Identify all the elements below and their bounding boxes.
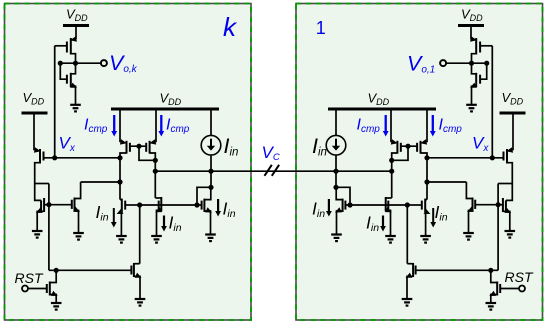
ground (M12) (cell k) [135,298,146,300]
node rst drain (cell 1) [488,268,493,273]
current arrow Iin M8 (k) [113,208,115,223]
vdd supply bar (latch) (cell 1) [328,108,436,111]
vdd supply bar (inverter) (cell 1) [458,24,484,27]
wire vdd stem 2 (cell k) [33,114,35,150]
current arrow Iin M10 (1) [328,199,330,212]
nmos M5 (mirror output) (cell 1) [466,182,475,233]
nmos M10 (Iin diode) (cell 1) [335,187,350,234]
vdd supply bar (left column) (cell 1) [500,112,526,115]
current arrow Icmp 2 (k) [160,115,162,132]
node rst drain (cell k) [54,268,59,273]
current arrow Icmp 2 (1) [385,115,387,132]
wire output node (cell 1) [446,62,487,64]
nmos M8 (Iin mirror to Vx) (cell k) [119,182,121,200]
nmos M2 (inverter pull-down) (cell k) [60,63,67,79]
ground (M5) (cell 1) [463,233,474,240]
nmos M5 (mirror output) (cell k) [71,200,73,209]
wire M4 gate feed (cell 1) [506,184,512,201]
terminal Vo circle (cell k) [101,60,107,66]
wire latch drain down (cell 1) [391,160,393,171]
current source Iin (cell k) [201,135,221,155]
vdd supply bar (inverter) (cell k) [63,24,89,27]
ground (M12) (cell 1) [402,299,413,306]
wire vdd stem 2 (cell 1) [512,114,514,150]
pmos M7 (latch right, diode) (cell k) [149,139,156,145]
pmos M1 (inverter pull-up) (cell k) [70,36,77,42]
nmos M11 (reset switch) (cell k) [46,284,48,293]
wire mirror gate bus (cell 1) [475,204,498,206]
svg-text:RST: RST [505,269,534,285]
node latch drain (cell 1) [389,158,394,163]
node Vx branch (cell 1) [424,179,429,184]
wire latch stem left (cell k) [119,110,121,142]
wire rst gate (cell 1) [500,288,519,290]
node row gate bus left (cell 1) [405,202,410,207]
wire gate bus tap down (cell 1) [497,205,499,271]
node Vx at latch drain (cell 1) [424,155,429,160]
ground (M4) (cell k) [32,230,43,232]
wire Vx branch (cell k) [119,158,121,182]
wire gates to drain (cell 1) [392,146,408,160]
wire diode link (cell 1) [336,187,350,205]
vdd supply bar (left column) (cell k) [22,112,48,115]
wire mirror gate bus (cell k) [49,204,72,206]
wire row gate bus (cell 1) [350,204,407,206]
node mirror gate (cell 1) [496,202,501,207]
pmos M6 (latch left) (cell k) [120,139,127,145]
node Vx branch (cell k) [117,179,122,184]
wire vdd stem (cell k) [75,27,77,40]
wire inverter input (cell 1) [491,46,493,158]
node latch tail (cell 1) [389,169,394,174]
wire vdd stem (cell 1) [470,27,472,40]
nmos M11 (reset switch) (cell 1) [489,270,500,303]
pmos M6 (latch left) (cell 1) [417,139,427,158]
current source Iin (cell 1) [326,135,346,155]
pmos M3 (Vx sense) (cell 1) [502,147,513,183]
nmos M4 (mirror diode) (cell 1) [498,198,511,231]
wire source out (cell 1) [335,155,337,171]
ground (M5) (cell k) [73,232,84,234]
ground (inverter) (cell k) [70,104,81,106]
current arrow Icmp 1 (k) [113,115,115,132]
wire Vx (cell 1) [427,157,504,159]
ground (M11) (cell 1) [486,303,497,310]
ground (M10) (cell 1) [331,235,342,242]
node mirror gate (cell k) [46,202,51,207]
wire rst bus (cell 1) [416,269,499,271]
nmos M12 (mirror cascade) (cell k) [130,266,132,275]
wire source to diode (cell 1) [335,171,337,187]
nmos M12 (mirror cascade) (cell 1) [406,205,416,299]
vdd supply bar (latch) (cell k) [111,108,219,111]
node diode tap (cell 1) [333,185,338,190]
wire M4 gate feed (cell k) [35,184,41,201]
node source tail (cell 1) [333,169,338,174]
wire row gate bus (cell k) [140,204,197,206]
node Vx junction (cell k) [52,155,57,160]
terminal RST circle (cell 1) [519,286,525,292]
node Vx junction (cell 1) [490,155,495,160]
ground (M4) (cell 1) [505,231,516,238]
wire output node (cell k) [60,62,101,64]
current arrow Iin M9 (1) [382,216,384,228]
pmos M1 (inverter pull-up) (cell 1) [470,36,492,63]
wire VC interconnect [155,170,391,172]
node source tail (cell k) [208,169,213,174]
node row gate bus left (cell k) [137,202,142,207]
pmos M3 (Vx sense) (cell k) [34,147,41,153]
pmos M7 (latch right, diode) (cell 1) [391,139,401,160]
wire break symbol [265,165,272,176]
node diode tap (cell k) [208,185,213,190]
svg-text:1: 1 [316,18,326,38]
wire latch stem left (cell 1) [426,110,428,142]
ground (inverter) (cell 1) [466,105,477,112]
current arrow Icmp 1 (1) [432,115,434,132]
wire Vx branch (cell 1) [427,158,466,182]
ground (M9) (cell k) [151,235,162,237]
wire latch gate link (cell 1) [401,145,417,147]
nmos M10 (Iin diode) (cell k) [201,201,203,210]
current arrow Iin M8 (1) [432,208,434,223]
node latch drain (cell k) [153,158,158,163]
node output junction (cell k) [73,61,78,66]
node row gate bus right (cell 1) [347,202,352,207]
wire latch drain down (cell k) [154,160,156,171]
wire gate bus tap down (cell k) [48,205,50,271]
wire M3 drain to mirror (cell k) [35,183,49,185]
wire latch stem right (cell k) [155,110,157,142]
nmos M8 (Iin mirror to Vx) (cell 1) [407,182,430,236]
node row gate bus right (cell k) [194,202,199,207]
node latch gates (cell k) [136,144,141,149]
ground (M10) (cell k) [205,233,216,235]
wire rst bus (cell k) [49,269,131,271]
ground (M11) (cell k) [51,302,62,304]
wire inverter input (cell k) [54,46,56,158]
wire source stem (cell k) [210,110,212,136]
node latch tail (cell k) [153,169,158,174]
wire source out (cell k) [210,155,212,171]
terminal RST circle (cell k) [22,286,28,292]
current arrow Iin M9 (k) [163,216,165,228]
wire rst gate (cell k) [28,288,47,290]
wire Vx (cell k) [44,157,121,159]
cell box 1 [296,4,543,321]
ground (M8) (cell k) [116,235,127,237]
wire M3 drain to mirror (cell 1) [498,184,512,205]
wire diode link (cell k) [197,187,211,205]
nmos M9 (Iin mirror to tail) (cell 1) [385,171,392,236]
terminal Vo circle (cell 1) [440,60,446,66]
wire latch stem right (cell 1) [390,110,392,142]
ground (M9) (cell 1) [385,236,396,243]
node latch gates (cell 1) [405,144,410,149]
ground (M8) (cell 1) [420,236,431,243]
cell box k [5,4,252,321]
current arrow Iin M10 (k) [217,199,219,212]
nmos M4 (mirror diode) (cell k) [40,200,42,210]
nmos M2 (inverter pull-down) (cell 1) [470,63,487,105]
node Vx at latch drain (cell k) [117,155,122,160]
svg-text:k: k [223,12,238,42]
svg-text:RST: RST [15,270,44,286]
wire source stem (cell 1) [335,110,337,136]
wire gates to drain (cell k) [139,146,155,160]
nmos M9 (Iin mirror to tail) (cell k) [154,171,156,198]
node output junction (cell 1) [469,61,489,66]
wire source to diode (cell k) [210,171,212,187]
wire latch gate link (cell k) [130,145,146,147]
